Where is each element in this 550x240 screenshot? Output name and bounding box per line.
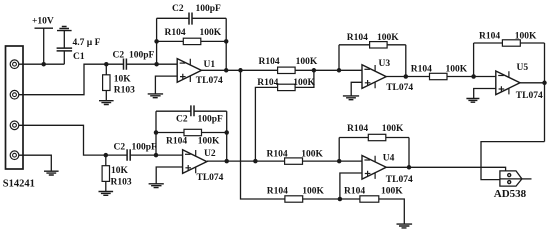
- svg-text:C2: C2: [176, 115, 188, 125]
- svg-text:R104: R104: [347, 33, 368, 43]
- svg-text:R103: R103: [114, 86, 135, 96]
- svg-text:100K: 100K: [198, 137, 220, 147]
- svg-text:TL074: TL074: [386, 175, 413, 185]
- svg-text:TL074: TL074: [516, 91, 543, 101]
- svg-text:U4: U4: [383, 154, 395, 164]
- svg-text:R104: R104: [267, 186, 288, 196]
- svg-text:100K: 100K: [302, 186, 324, 196]
- svg-text:100K: 100K: [446, 64, 468, 74]
- svg-text:R104: R104: [259, 57, 280, 67]
- svg-text:U1: U1: [204, 60, 216, 70]
- svg-text:R104: R104: [166, 137, 187, 147]
- svg-text:4.7 µ F: 4.7 µ F: [73, 38, 101, 48]
- svg-text:C2: C2: [172, 4, 184, 14]
- svg-text:100K: 100K: [293, 78, 315, 88]
- svg-text:10K: 10K: [111, 166, 129, 176]
- svg-text:R104: R104: [257, 78, 278, 88]
- svg-text:100pF: 100pF: [132, 143, 158, 153]
- svg-text:10K: 10K: [114, 75, 132, 85]
- svg-text:U3: U3: [379, 59, 391, 69]
- svg-text:TL074: TL074: [196, 76, 223, 86]
- svg-text:U5: U5: [517, 63, 529, 73]
- svg-text:S14241: S14241: [3, 179, 35, 190]
- svg-text:R104: R104: [411, 64, 432, 74]
- svg-text:U2: U2: [204, 149, 216, 159]
- svg-text:100K: 100K: [301, 149, 323, 159]
- svg-text:100pF: 100pF: [129, 51, 155, 61]
- svg-text:100K: 100K: [381, 186, 403, 196]
- svg-text:R104: R104: [267, 149, 288, 159]
- svg-text:R104: R104: [479, 32, 500, 42]
- svg-text:AD538: AD538: [494, 188, 527, 200]
- svg-text:100K: 100K: [382, 124, 404, 134]
- svg-text:100K: 100K: [200, 28, 222, 38]
- svg-text:R104: R104: [347, 124, 368, 134]
- svg-text:R104: R104: [165, 28, 186, 38]
- svg-text:C2: C2: [113, 51, 125, 61]
- svg-text:100K: 100K: [515, 32, 537, 42]
- svg-text:100K: 100K: [296, 57, 318, 67]
- svg-text:TL074: TL074: [386, 83, 413, 93]
- svg-text:R104: R104: [344, 186, 365, 196]
- svg-text:+10V: +10V: [32, 17, 54, 27]
- svg-text:100K: 100K: [377, 33, 399, 43]
- svg-text:C1: C1: [73, 52, 85, 62]
- svg-text:100pF: 100pF: [198, 115, 224, 125]
- svg-text:R103: R103: [111, 178, 132, 188]
- svg-text:100pF: 100pF: [196, 4, 222, 14]
- svg-text:TL074: TL074: [197, 173, 224, 183]
- svg-text:C2: C2: [114, 143, 126, 153]
